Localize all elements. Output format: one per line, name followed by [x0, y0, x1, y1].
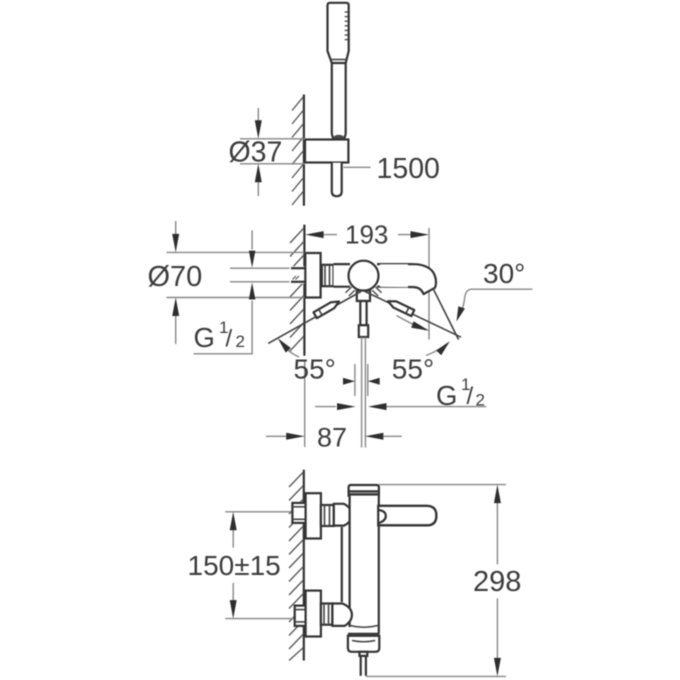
rod width dim: extension lines: [354, 364, 356, 396]
svg-text:55°: 55°: [294, 354, 336, 385]
rod width dim: arrows: [343, 378, 355, 385]
wall hatching (middle view): [290, 228, 304, 351]
lever boss: [379, 510, 386, 523]
svg-text:150±15: 150±15: [188, 550, 281, 581]
upper S-union body: [334, 504, 352, 526]
leader line to 1500: [344, 166, 371, 168]
dim 193: dimension line: [322, 234, 337, 236]
swing arc left with arrow: [280, 341, 299, 358]
30° leader with arrow: [460, 289, 533, 314]
label G1/2 frame: [194, 353, 253, 355]
shower hose: [332, 163, 342, 197]
wall (middle view): [303, 225, 305, 356]
spout: [380, 264, 436, 294]
G1/2 (lower) leader with arrows: [315, 406, 336, 408]
pull rod lower (thin lines): [361, 337, 363, 448]
svg-text:55°: 55°: [392, 354, 434, 385]
dim Ø70: arrows: [175, 221, 177, 249]
upper wall flange: [306, 493, 321, 538]
svg-text:2: 2: [476, 391, 485, 410]
body cap: [349, 485, 379, 496]
svg-text:Ø37: Ø37: [229, 137, 283, 169]
body column: [350, 496, 379, 627]
shower handle: [332, 63, 346, 140]
hose connector shading: [333, 135, 344, 141]
pull rod upper: [360, 301, 366, 325]
union nut (middle view): [322, 265, 334, 286]
lower behind-wall pipe: [295, 606, 306, 626]
wall bracket: [305, 140, 348, 163]
wall (top view): [303, 95, 305, 206]
body bottom arcs: [350, 626, 378, 628]
svg-text:87: 87: [317, 423, 347, 453]
spray face ticks: [345, 12, 348, 40]
diverter neck below circle: [357, 291, 370, 302]
wall hatching (bottom view): [289, 472, 303, 661]
svg-text:2: 2: [236, 332, 245, 351]
lever profile left (pencil): [313, 299, 340, 319]
svg-text:193: 193: [345, 220, 388, 250]
lever profile right (pencil): [387, 298, 415, 316]
hand shower head: [328, 3, 349, 63]
dim Ø37: extension lines: [240, 138, 305, 140]
body bar right: [377, 264, 411, 287]
lower union nut: [321, 604, 333, 625]
diverter pull rod: [360, 656, 362, 676]
svg-text:1500: 1500: [377, 153, 440, 185]
pull rod connector: [359, 325, 368, 337]
wall flange (middle view): [305, 253, 320, 298]
dim 193: right extension line: [428, 228, 430, 340]
svg-text:G: G: [194, 322, 215, 353]
30° construction line: [433, 288, 459, 340]
lower wall flange: [306, 591, 321, 637]
cartridge circle: [349, 261, 379, 291]
body rear edge line: [341, 527, 343, 602]
body bar left: [334, 264, 350, 287]
wall hatching (top view): [292, 96, 304, 205]
wall (bottom view): [303, 470, 305, 661]
supply pipe nipple: [290, 266, 306, 284]
diverter housing: [348, 636, 379, 652]
circle radiating ticks right: [376, 287, 382, 293]
circle radiating ticks left: [346, 287, 382, 296]
lever swing line right (55°): [364, 291, 461, 337]
svg-text:/: /: [467, 383, 474, 410]
dim 298: dimension line + arrows: [496, 488, 498, 564]
diverter stem collar: [360, 652, 368, 656]
dim Ø70: extension lines: [167, 251, 306, 253]
lower elbow: [332, 604, 352, 626]
upper behind-wall pipe: [292, 503, 305, 523]
swing arc right with arrow: [426, 344, 448, 356]
rotation arc with right arrow: [397, 316, 427, 331]
nipple thread ticks: [293, 276, 300, 280]
dim 150±15: extension lines: [225, 511, 292, 513]
supply pipe extension lines: [230, 267, 291, 269]
svg-text:G: G: [436, 380, 457, 411]
lever bar: [378, 506, 436, 526]
svg-text:Ø70: Ø70: [148, 261, 203, 293]
svg-text:298: 298: [473, 566, 521, 598]
wall line extension down to 87 dim: [304, 360, 306, 447]
lever swing line left (55°): [268, 292, 361, 344]
upper union nut: [321, 505, 334, 526]
svg-text:30°: 30°: [483, 258, 525, 289]
shower head seam: [331, 59, 347, 61]
svg-text:/: /: [226, 326, 233, 353]
dim 87: [266, 435, 288, 437]
dim 298: extension lines: [379, 484, 506, 486]
dim 150±15: dimension line + arrows: [232, 516, 234, 548]
dim Ø37: dimension line + arrows: [257, 108, 259, 135]
dim G1/2 (upper): vertical line with arrows: [251, 230, 253, 249]
